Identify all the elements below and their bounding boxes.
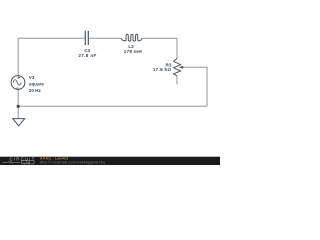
svg-text:20 Hz: 20 Hz xyxy=(29,88,42,93)
svg-text:27.8 nF: 27.8 nF xyxy=(78,53,96,58)
svg-text:V3: V3 xyxy=(29,75,35,80)
svg-text:square: square xyxy=(29,81,45,86)
svg-text:17.8 kΩ: 17.8 kΩ xyxy=(153,67,172,72)
svg-text:http://circuitlab.com/c4e58gqs: http://circuitlab.com/c4e58gqs2b25q xyxy=(40,160,105,164)
svg-text:178 mH: 178 mH xyxy=(124,49,143,54)
svg-text:LAB: LAB xyxy=(23,161,30,165)
